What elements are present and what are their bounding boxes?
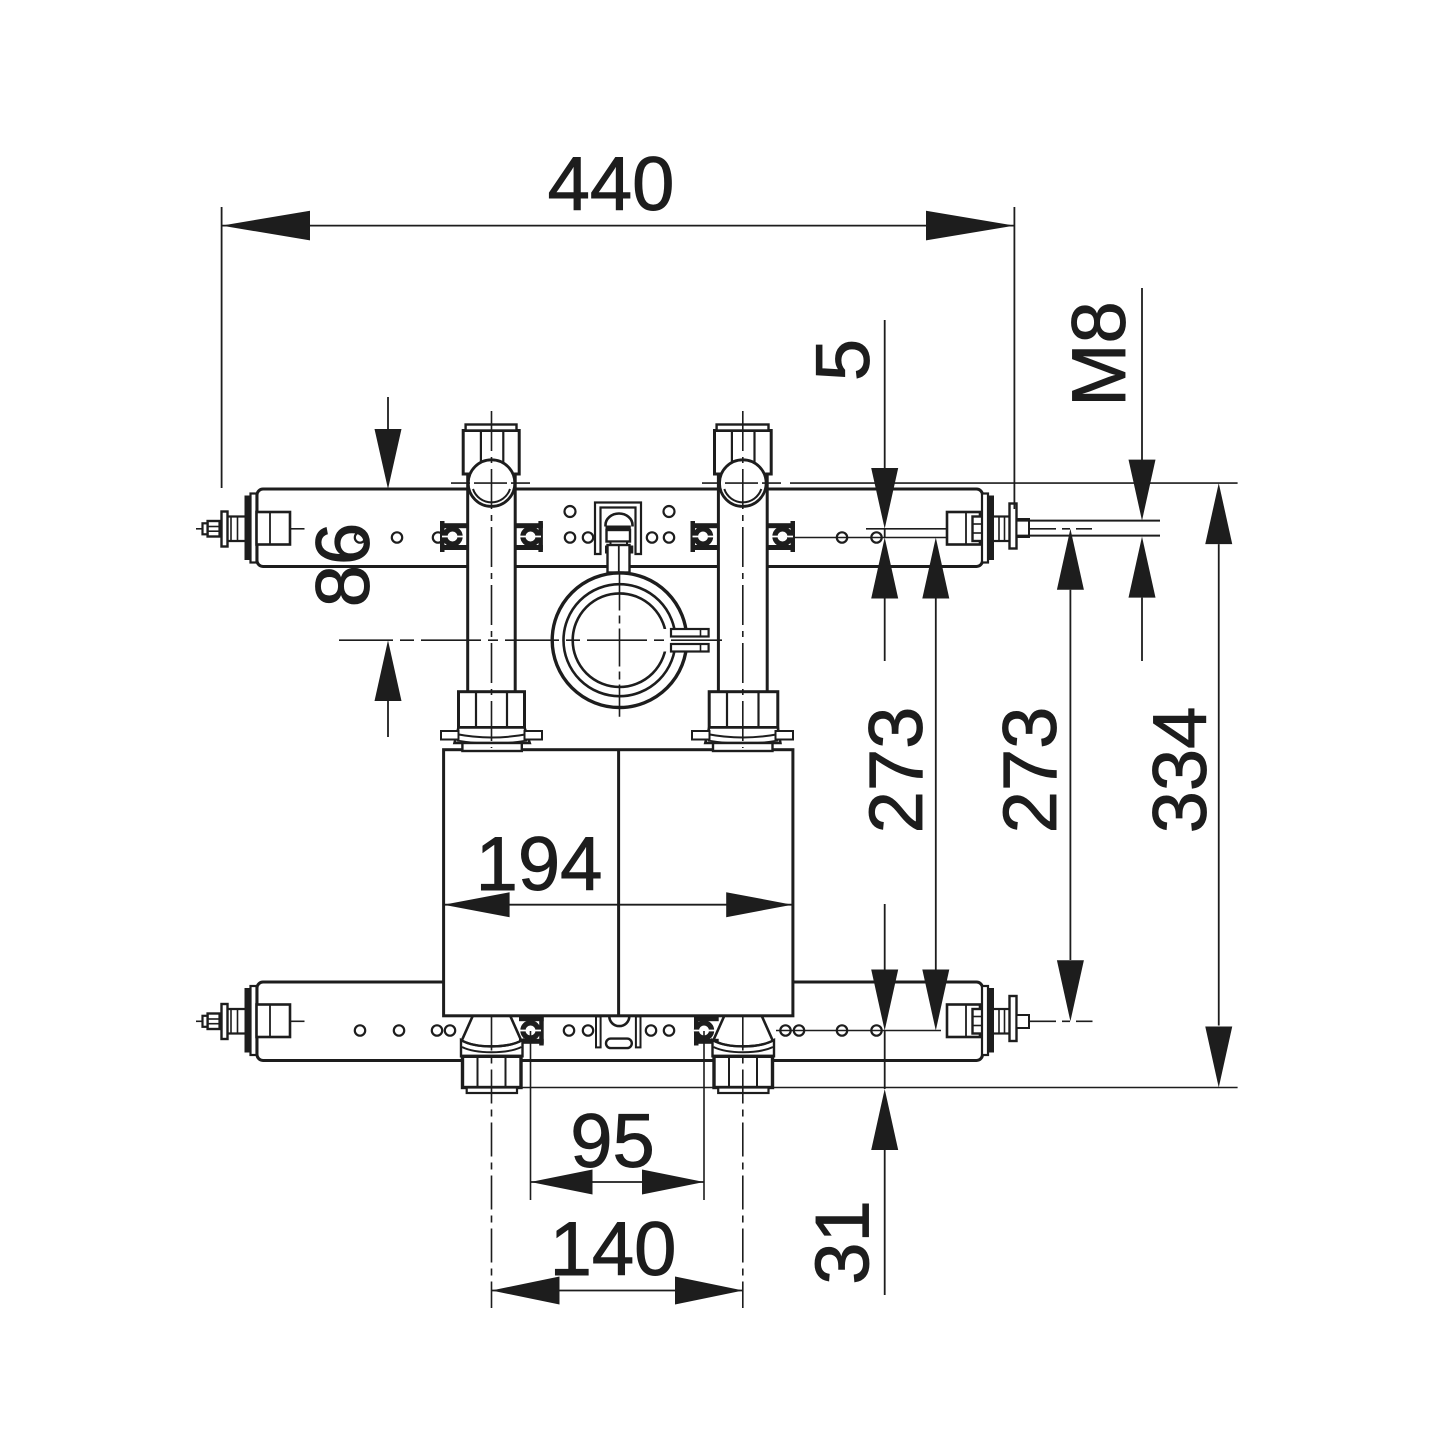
svg-text:5: 5: [801, 339, 886, 381]
svg-text:31: 31: [801, 1200, 886, 1285]
svg-text:M8: M8: [1057, 301, 1142, 407]
svg-text:273: 273: [854, 707, 939, 834]
svg-text:440: 440: [548, 142, 675, 227]
svg-text:95: 95: [570, 1099, 655, 1184]
svg-text:86: 86: [301, 523, 386, 608]
svg-text:194: 194: [476, 822, 603, 907]
svg-text:334: 334: [1138, 707, 1223, 834]
svg-text:140: 140: [550, 1207, 677, 1292]
svg-text:273: 273: [988, 707, 1073, 834]
